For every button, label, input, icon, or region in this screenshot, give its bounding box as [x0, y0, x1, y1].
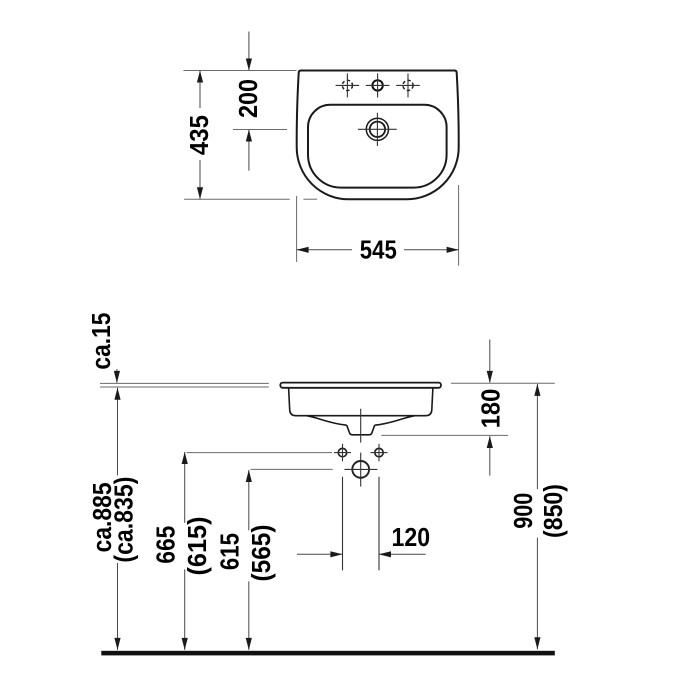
- tap hole right (dashed): [396, 73, 420, 97]
- extension line drain bottom (y=435.4): [381, 434, 508, 436]
- dimension ca.15: [88, 313, 120, 383]
- svg-text:120: 120: [392, 524, 431, 552]
- dimension 120: [297, 524, 430, 558]
- svg-text:180: 180: [477, 389, 505, 429]
- svg-text:(615): (615): [184, 517, 212, 576]
- svg-text:ca.15: ca.15: [88, 313, 116, 370]
- countertop left (double line): [100, 382, 269, 384]
- dimension 545: [297, 236, 459, 264]
- dimension ca.885 (ca.835): [89, 388, 139, 650]
- svg-text:545: 545: [360, 236, 397, 264]
- centre axis line (elevation): [360, 409, 362, 443]
- fixing hole axis lines: [342, 477, 344, 571]
- dimension 900 (850): [510, 384, 568, 649]
- svg-text:435: 435: [186, 115, 214, 155]
- basin rim (elevation): [280, 383, 441, 388]
- dimension 615 (565): [217, 470, 277, 650]
- svg-text:665: 665: [153, 526, 181, 564]
- basin outer outline (plan view): [297, 71, 459, 200]
- dimension 200: [235, 32, 263, 171]
- basin shell (elevation): [289, 388, 433, 416]
- countertop right (single line): [451, 382, 555, 384]
- extension line 545 left (x=296.6): [296, 196, 298, 262]
- fixing hole left (elevation): [334, 444, 351, 461]
- svg-text:900: 900: [510, 493, 538, 529]
- extension line overflow centre (y=129.5): [233, 129, 287, 131]
- svg-text:(ca.835): (ca.835): [111, 477, 139, 563]
- tap hole centre: [366, 73, 390, 97]
- overflow hole: [358, 113, 397, 146]
- extension line fixing holes level (y=452.6): [187, 452, 333, 454]
- dimension 180: [477, 340, 505, 476]
- extension line 545 right (x=458.6): [458, 185, 460, 266]
- svg-text:200: 200: [235, 79, 263, 118]
- extension line trap level (y=469.4): [251, 468, 333, 470]
- svg-text:615: 615: [217, 533, 245, 570]
- svg-text:(850): (850): [540, 484, 568, 538]
- drain trap circle (elevation): [344, 461, 377, 478]
- svg-text:(565): (565): [248, 525, 276, 582]
- fixing hole right (elevation): [371, 444, 388, 461]
- basin bowl underside and drain stub (elevation): [307, 416, 415, 435]
- dimension 435: [186, 71, 214, 200]
- floor line: [101, 651, 555, 656]
- tap hole left (dashed): [336, 73, 360, 97]
- extension line top (y=70.5): [183, 70, 296, 72]
- extension line bottom of 435 (y=199.2): [184, 198, 290, 200]
- dimension 665 (615): [153, 452, 213, 650]
- basin inner bowl outline (plan view): [308, 105, 447, 188]
